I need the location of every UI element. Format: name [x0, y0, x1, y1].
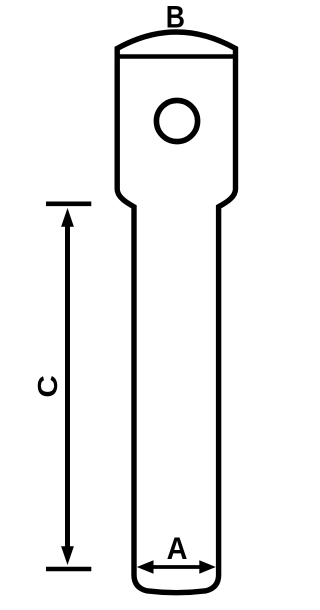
svg-text:A: A — [167, 531, 188, 567]
svg-text:B: B — [166, 1, 185, 36]
svg-text:C: C — [32, 375, 63, 398]
